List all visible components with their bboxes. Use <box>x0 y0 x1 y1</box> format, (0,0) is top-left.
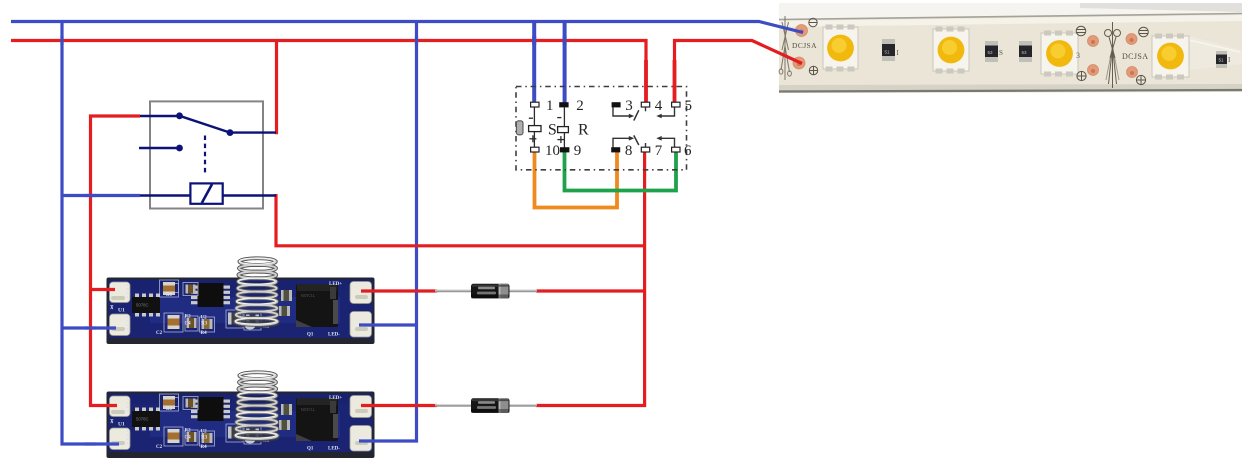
svg-text:TC40N: TC40N <box>301 293 315 298</box>
svg-text:R3: R3 <box>201 436 208 441</box>
svg-text:S: S <box>548 122 557 139</box>
svg-text:51: 51 <box>885 50 891 55</box>
svg-text:R4: R4 <box>201 445 208 450</box>
svg-text:U1: U1 <box>118 308 125 314</box>
svg-text:Q1: Q1 <box>307 333 314 338</box>
svg-text:R4: R4 <box>201 331 208 336</box>
svg-text:4: 4 <box>655 98 663 114</box>
svg-text:6: 6 <box>684 143 692 159</box>
svg-text:C2: C2 <box>156 445 163 450</box>
svg-text:1: 1 <box>546 98 554 114</box>
svg-text:C2: C2 <box>156 331 163 336</box>
svg-text:3: 3 <box>1076 51 1080 60</box>
svg-text:⊼: ⊼ <box>110 305 114 311</box>
svg-text:U2: U2 <box>201 430 208 435</box>
svg-text:53: 53 <box>1022 50 1028 55</box>
svg-text:9: 9 <box>574 143 582 159</box>
svg-text:R1: R1 <box>166 293 173 298</box>
svg-text:C4: C4 <box>185 436 192 441</box>
svg-text:10: 10 <box>545 143 560 159</box>
svg-text:R3: R3 <box>201 322 208 327</box>
svg-text:3: 3 <box>625 98 633 114</box>
svg-text:8: 8 <box>625 143 633 159</box>
svg-text:⊼: ⊼ <box>110 419 114 425</box>
svg-text:R2: R2 <box>185 315 192 320</box>
svg-text:5078C: 5078C <box>136 417 149 422</box>
svg-text:5: 5 <box>685 98 693 114</box>
svg-text:LED-: LED- <box>328 333 340 338</box>
svg-text:7: 7 <box>655 143 663 159</box>
svg-text:51: 51 <box>1219 58 1225 63</box>
svg-text:5078C: 5078C <box>136 303 149 308</box>
svg-text:R1: R1 <box>166 407 173 412</box>
svg-text:R: R <box>578 122 589 139</box>
svg-text:53: 53 <box>988 50 994 55</box>
svg-text:C4: C4 <box>185 322 192 327</box>
svg-text:TC40N: TC40N <box>301 407 315 412</box>
svg-text:R2: R2 <box>185 429 192 434</box>
svg-text:LED-: LED- <box>328 447 340 452</box>
svg-text:U1: U1 <box>118 422 125 428</box>
svg-text:DCJSA: DCJSA <box>1122 52 1148 61</box>
svg-text:Q1: Q1 <box>307 447 314 452</box>
svg-text:U2: U2 <box>201 316 208 321</box>
svg-text:2: 2 <box>576 98 584 114</box>
svg-text:LED+: LED+ <box>329 396 342 401</box>
svg-text:LED+: LED+ <box>329 282 342 287</box>
svg-text:S: S <box>999 49 1003 57</box>
svg-text:DCJSA: DCJSA <box>792 41 817 50</box>
